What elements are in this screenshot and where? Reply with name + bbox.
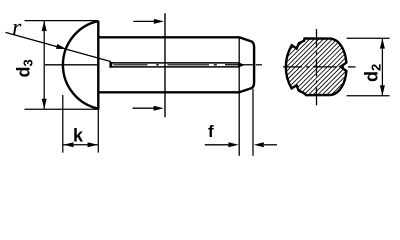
svg-text:k: k [73, 126, 84, 146]
svg-text:r: r [12, 15, 22, 41]
svg-text:f: f [208, 122, 214, 141]
